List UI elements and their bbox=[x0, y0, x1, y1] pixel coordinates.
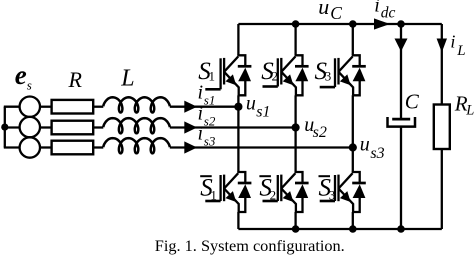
svg-text:s: s bbox=[27, 78, 32, 93]
diode of S3 bbox=[352, 55, 366, 95]
svg-text:3: 3 bbox=[325, 68, 332, 83]
node: bottom rail junction bbox=[292, 225, 300, 233]
source e_s phase 2 (circle) bbox=[20, 117, 40, 137]
resistor R phase 3 (box) bbox=[52, 141, 94, 155]
wire: negative dc rail bbox=[238, 228, 441, 230]
source e_s phase 3 (circle) bbox=[20, 137, 40, 157]
wire: leg 1 lower vertical bbox=[237, 212, 239, 229]
node u_s1 bbox=[234, 103, 242, 111]
wire: leg 3 upper vertical bbox=[352, 24, 354, 55]
label S1 bbox=[198, 58, 215, 85]
diode of S3-bar bbox=[352, 172, 366, 212]
node: top rail junction bbox=[292, 20, 300, 28]
svg-text:R: R bbox=[68, 67, 83, 92]
node: bottom rail junction bbox=[349, 225, 357, 233]
svg-text:s3: s3 bbox=[204, 133, 216, 148]
label S1-bar bbox=[200, 175, 217, 203]
wire: leg 1 upper vertical bbox=[237, 24, 239, 55]
label i_L bbox=[450, 31, 465, 59]
resistor R phase 1 (box) bbox=[52, 100, 94, 114]
resistor R_L (box) bbox=[434, 105, 450, 150]
wire: leg 3 lower vertical bbox=[352, 212, 354, 229]
label u_s3 bbox=[360, 134, 385, 162]
svg-text:1: 1 bbox=[210, 188, 217, 203]
svg-text:i: i bbox=[198, 102, 204, 124]
wire: leg 1 middle vertical bbox=[237, 95, 239, 172]
svg-text:s3: s3 bbox=[370, 145, 384, 162]
svg-text:u: u bbox=[360, 134, 370, 156]
label S2 bbox=[261, 58, 278, 85]
wire: resistor to inductor phase 1 bbox=[93, 106, 103, 108]
wire: positive dc rail bbox=[238, 23, 441, 25]
label S3-bar bbox=[319, 175, 336, 203]
svg-text:s1: s1 bbox=[204, 93, 216, 108]
label R_L bbox=[454, 91, 474, 118]
diode of S2 bbox=[295, 55, 309, 95]
svg-text:3: 3 bbox=[329, 188, 336, 203]
wire: leg 3 middle vertical bbox=[352, 95, 354, 172]
label u_s2 bbox=[304, 114, 327, 141]
current arrow i_s1 bbox=[184, 101, 197, 113]
wire: load branch upper lead bbox=[441, 24, 443, 105]
wire: inductor to converter phase 1 with current arrow bbox=[170, 106, 239, 108]
wire: circle to resistor phase 1 bbox=[40, 106, 52, 108]
label u_s1 bbox=[246, 93, 271, 121]
svg-text:i: i bbox=[374, 0, 380, 16]
wire: leg 2 upper vertical bbox=[294, 24, 296, 55]
wire: circle to resistor phase 2 bbox=[40, 126, 52, 128]
wire: capacitor branch lower lead bbox=[400, 127, 402, 229]
wire: leg 2 lower vertical bbox=[294, 212, 296, 229]
wire: bus stub phase 1 bbox=[4, 106, 20, 108]
inductor L phase 1 (coil) bbox=[103, 97, 170, 112]
svg-text:Fig. 1. System configuration.: Fig. 1. System configuration. bbox=[155, 236, 345, 255]
svg-text:C: C bbox=[405, 90, 420, 114]
source e_s phase 1 (circle) bbox=[20, 97, 40, 117]
resistor R phase 2 (box) bbox=[52, 121, 94, 135]
wire: resistor to inductor phase 3 bbox=[93, 146, 103, 148]
svg-text:u: u bbox=[246, 93, 256, 115]
svg-text:L: L bbox=[456, 43, 465, 59]
inductor L phase 3 (coil) bbox=[103, 138, 170, 153]
transistor S1 (IGBT) bbox=[205, 57, 238, 96]
wire: circle to resistor phase 3 bbox=[40, 146, 52, 148]
transistor S3 (IGBT) bbox=[320, 57, 353, 96]
node: source neutral junction bbox=[1, 124, 8, 131]
svg-text:u: u bbox=[318, 0, 329, 19]
diode of S1-bar bbox=[237, 172, 251, 212]
node u_s2 bbox=[292, 123, 300, 131]
wire: bus stub phase 3 bbox=[4, 146, 20, 148]
wire: inductor to converter phase 3 with current arrow bbox=[170, 146, 353, 148]
wire: load branch lower lead bbox=[441, 149, 443, 229]
svg-text:2: 2 bbox=[270, 188, 277, 203]
transistor S2-bar (IGBT) bbox=[263, 173, 296, 212]
transistor S3-bar (IGBT) bbox=[320, 173, 353, 212]
wire: bus stub phase 2 bbox=[4, 126, 20, 128]
inductor L phase 2 (coil) bbox=[103, 118, 170, 133]
svg-text:s2: s2 bbox=[204, 113, 216, 128]
node: top rail junction bbox=[349, 20, 357, 28]
node u_s3 bbox=[349, 143, 357, 151]
svg-text:L: L bbox=[120, 65, 134, 91]
svg-text:e: e bbox=[15, 60, 27, 90]
svg-text:C: C bbox=[330, 3, 342, 23]
transistor S1-bar (IGBT) bbox=[205, 173, 238, 212]
svg-text:dc: dc bbox=[381, 5, 396, 22]
label S2-bar bbox=[259, 175, 276, 203]
svg-text:2: 2 bbox=[272, 68, 279, 83]
node: bottom rail junction bbox=[397, 225, 405, 233]
transistor S2 (IGBT) bbox=[263, 57, 296, 96]
diode of S1 bbox=[237, 55, 251, 95]
svg-text:s2: s2 bbox=[313, 124, 327, 141]
wire: source bus vertical bbox=[4, 107, 6, 148]
current arrow i_L bbox=[437, 39, 447, 53]
current arrow i_dc on top rail bbox=[374, 18, 390, 29]
svg-text:L: L bbox=[465, 102, 474, 118]
wire: capacitor branch upper lead bbox=[400, 24, 402, 118]
wire: leg 2 middle vertical bbox=[294, 95, 296, 172]
node: top rail junction bbox=[397, 20, 405, 28]
current arrow i_s2 bbox=[184, 121, 197, 133]
capacitor C (electrolytic) bbox=[388, 117, 416, 127]
label S3 bbox=[315, 58, 332, 85]
current arrow into capacitor branch bbox=[395, 39, 408, 52]
wire: inductor to converter phase 2 with current arrow bbox=[170, 126, 296, 128]
svg-text:1: 1 bbox=[209, 68, 216, 83]
wire: resistor to inductor phase 2 bbox=[93, 126, 103, 128]
svg-text:i: i bbox=[450, 31, 455, 51]
diode of S2-bar bbox=[295, 172, 309, 212]
current arrow i_s3 bbox=[184, 141, 197, 153]
svg-text:i: i bbox=[198, 122, 204, 144]
svg-text:s1: s1 bbox=[256, 104, 270, 121]
